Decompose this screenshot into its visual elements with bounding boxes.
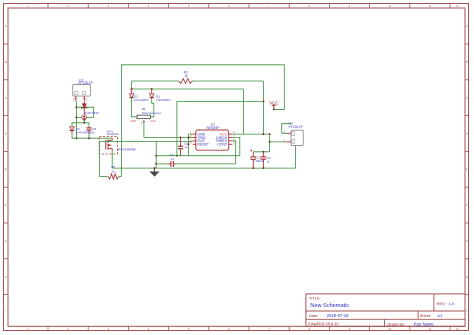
wire OUT to gate [99,140,192,142]
wire D1 to pot right [150,98,153,117]
svg-text:C: C [466,96,468,100]
node U4 pin1 jog [269,141,271,143]
svg-text:E: E [466,167,468,171]
wire decoupling row [253,151,269,153]
node U3 pin1 / loop top [75,106,77,108]
wire gate pulldown left leg [98,141,100,176]
ic U1 NE555P box [196,130,229,150]
wire mosfet source to rail [111,151,113,168]
svg-text:EasyEDA V5.6.10: EasyEDA V5.6.10 [308,322,338,326]
diode D3 [71,125,73,128]
title block row line 2 [306,318,465,320]
svg-text:RESET: RESET [197,143,210,147]
svg-text:REV:: REV: [437,301,446,306]
svg-text:H: H [5,275,7,279]
potentiometer R1 body [137,115,150,118]
resistor R2 left corner to diode rail [131,81,133,89]
wire THRES riser [232,141,235,164]
capacitor C5 [88,126,90,129]
svg-text:D: D [5,132,7,136]
wire pot-net vertical v1 [176,101,178,155]
capacitor C3 [262,152,264,157]
wire C5 bottom [88,133,90,138]
wire pot wiper riser [143,120,145,137]
wire ground rail A top loop [122,65,285,177]
svg-text:NE555P: NE555P [206,126,220,130]
wire D3 bottom to drain rail [71,134,73,139]
svg-text:1u: 1u [171,157,175,161]
wire U3 pin1 column [75,101,77,138]
ic U1 pin 5 CONT [229,143,233,145]
title block row line 1 [306,310,465,312]
svg-text:VCC: VCC [150,120,155,123]
svg-text:Potentiometer: Potentiometer [142,111,161,115]
border column ticks top/bottom [47,4,49,9]
wire 555 GND pin to riser [189,134,193,156]
svg-text:Sheet:: Sheet: [420,313,432,318]
wire diode top rail [132,88,244,90]
heatsink HS1 dashed box [99,136,117,154]
title block divider REV [433,294,435,311]
svg-text:1u: 1u [267,160,271,164]
node C2 top on TRIG row [180,137,182,139]
node D3C5 top center [83,122,85,124]
wire pot vcc to VCC node [177,100,264,102]
svg-text:C: C [5,96,7,100]
node U3 pin1 / loop bottom [75,116,77,118]
wire zener bypass loop [76,107,93,117]
connector U3 pin 1 [75,96,77,101]
svg-text:1.0: 1.0 [449,301,455,306]
wire TRIG row [144,137,193,139]
ic U1 pin 3 OUT [193,140,196,142]
svg-text:Heatsink: Heatsink [107,132,119,136]
wire 555 VCC row to U4 pin1 [232,133,269,135]
ic U1 pin 2 TRIG [193,137,196,139]
svg-text:100uF: 100uF [255,159,264,163]
svg-text:1N4748TA: 1N4748TA [85,111,100,115]
wire OUT net vertical [155,141,157,168]
resistor R2 [132,80,179,82]
node VCC row jog top [269,133,271,135]
title block divider DrawnBy [384,319,386,326]
svg-text:TITLE:: TITLE: [309,295,321,300]
wire diode rail to 555 VCC row [242,89,244,134]
wire U4 pin2 loop [282,124,291,134]
svg-text:D: D [466,132,468,136]
svg-text:Date:: Date: [309,313,319,318]
node zener column bottom [83,119,85,121]
svg-text:1u: 1u [184,145,188,149]
resistor R5 [99,176,108,178]
connector U4 pin 2 [286,132,291,134]
diode bridge element (circle) [83,111,85,115]
svg-text:E: E [5,167,7,171]
svg-text:B: B [5,60,7,64]
capacitor C2 [180,138,182,147]
node D1 on diode rail [151,88,153,90]
svg-text:A: A [5,24,7,28]
svg-text:G: G [466,239,468,243]
potentiometer R1 wiper arrow [143,120,145,122]
svg-text:H: H [466,275,468,279]
svg-text:B: B [466,60,468,64]
svg-text:1/1: 1/1 [437,313,443,318]
ic U1 pin 6 THRES [229,140,233,142]
svg-text:IRFZ44NPBF: IRFZ44NPBF [118,147,137,151]
node VCC vertical end on VCC row [262,133,264,135]
svg-text:1k: 1k [112,169,116,173]
wire VCC net vertical [262,101,264,134]
diode D1 [151,89,153,94]
node U3 pin1 / drain rail [75,137,77,139]
ic U1 pin 8 VCC [229,133,233,135]
wire DISCH riser [232,138,239,156]
title block outline [306,294,465,326]
svg-text:Your Name: Your Name [413,322,434,327]
node riser/TRIG row [188,137,190,139]
node riser/RESET row [188,143,190,145]
svg-text:Drawn By:: Drawn By: [388,323,406,327]
node C1 bottom on rail [252,167,254,169]
node C3 bottom on rail [262,167,264,169]
diode D2 [131,89,133,94]
svg-text:1k: 1k [184,74,188,78]
capacitor C1 electrolytic [252,152,254,157]
node VCC junction R2/pot [262,100,264,102]
svg-text:New Schematic: New Schematic [310,303,349,309]
connector U3 pin 2 [83,96,85,101]
mosfet Q1 IRFZ44N [105,140,107,150]
title block divider Sheet [417,311,419,319]
node OUT vertical / C4 wire [155,163,157,165]
svg-text:KF128-2P: KF128-2P [289,125,303,129]
ic U1 pin 7 DISCH [229,137,233,139]
capacitor C4 [156,163,168,165]
svg-text:2018-07-18: 2018-07-18 [327,313,350,318]
node VCC flag junction [273,108,275,110]
svg-text:G: G [5,239,7,243]
svg-text:1N4148TA: 1N4148TA [134,98,149,102]
wire C4 to THRES riser [176,163,235,165]
svg-text:1N4148TA: 1N4148TA [156,98,171,102]
node ground at rail [154,167,156,169]
ic U1 pin 1 GND [193,133,196,135]
wire U4 pin1 [270,141,287,143]
node C5 bottom [88,137,90,139]
svg-text:GND: GND [130,120,136,123]
wire drain rail (flyback row) [72,137,112,139]
wire bottom rail [112,146,295,169]
node OUT vertical / wire 155.7 [155,155,157,157]
node C3 top [262,151,264,153]
connector U4 pin 1 [286,141,291,143]
connector U4 box [291,130,303,145]
ic U1 pin 4 RESET [193,143,196,145]
wire D3/C5 top [72,123,89,127]
wire D2 to pot left [132,98,137,117]
svg-text:KF128-2P: KF128-2P [78,81,92,85]
wire VCC row jog down [269,134,271,152]
ground symbol [154,168,156,172]
wire VCC flag to rail corner [274,108,285,110]
svg-text:VCC: VCC [269,100,278,105]
zener diode D4 1N4748 [83,101,85,104]
svg-text:A: A [466,24,468,28]
svg-text:CONT: CONT [217,143,228,147]
node v1 on wire 155.7 [176,155,178,157]
border row ticks left/right [4,43,9,45]
wire net row 155.7 [156,155,240,157]
connector U3 box [73,85,91,97]
resistor R2 right corner to VCC node [262,81,264,101]
node R2/D2 on diode rail [131,88,133,90]
